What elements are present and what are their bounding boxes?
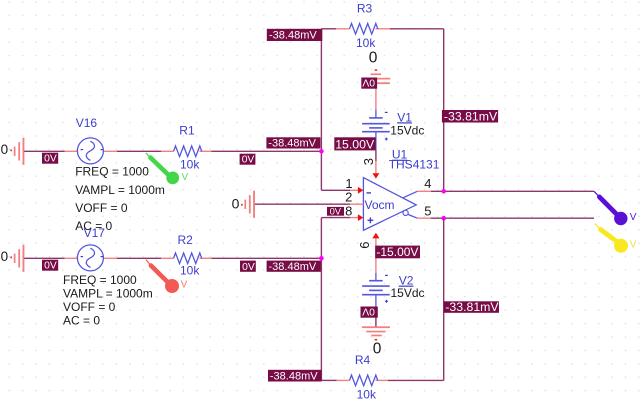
wire V16 to R1 (117, 150, 161, 152)
ground 0 (Vocm net) (232, 191, 255, 218)
svg-text:4: 4 (424, 176, 431, 191)
wire R2 to junction (212, 257, 323, 259)
junction node (R1/feedback) (319, 149, 324, 154)
net label 0V (R1 row) (240, 154, 256, 166)
ground 0 (V16 input net) (1, 138, 25, 165)
pin 8 stub and arrow (350, 214, 363, 221)
net label 0V rotated (above V1) (361, 77, 377, 89)
wire Vocm (ground to pin2) (255, 203, 350, 205)
svg-text:VAMPL = 1000m: VAMPL = 1000m (75, 183, 165, 197)
source V2 15Vdc (362, 273, 424, 307)
wire R4 row left (321, 379, 336, 381)
voltage probe (red) on R2 output (146, 260, 188, 293)
wire R4 to right vertical (388, 379, 444, 381)
svg-text:-38.48mV: -38.48mV (270, 370, 318, 382)
svg-text:V: V (630, 239, 637, 250)
net label 0V (Vocm net) (327, 205, 344, 216)
net label 0V (left V16) (42, 153, 58, 165)
resistor R3 (336, 2, 390, 50)
ground 0 (below V2) (362, 326, 390, 357)
wire pin6 to V2 (375, 238, 377, 272)
svg-text:-15.00V: -15.00V (376, 245, 418, 259)
svg-text:R2: R2 (178, 233, 194, 247)
svg-text:0: 0 (232, 196, 240, 212)
V16 parameter text (75, 165, 165, 234)
bias label -33.81mV (out+) (442, 110, 498, 124)
wire left vertical (pin8 down to R4 row) (320, 218, 322, 381)
bias label 15.00V (334, 137, 375, 151)
svg-text:0: 0 (1, 142, 9, 157)
bias label -38.48mV (R3 row) (267, 29, 323, 42)
wire out- (pin5 to probe) (431, 217, 594, 219)
svg-text:-33.81mV: -33.81mV (444, 110, 498, 124)
svg-text:15.00V: 15.00V (335, 137, 375, 151)
svg-text:10k: 10k (356, 36, 376, 50)
svg-text:R4: R4 (355, 353, 371, 367)
svg-text:Vocm: Vocm (365, 198, 395, 212)
svg-text:FREQ = 1000: FREQ = 1000 (63, 273, 137, 287)
wire ground to V17 (24, 257, 65, 259)
source V1 15Vdc (362, 110, 424, 151)
pin 2 stub (Vocm) (350, 203, 363, 205)
svg-text:FREQ = 1000: FREQ = 1000 (75, 165, 149, 179)
bias label -15.00V (375, 245, 420, 259)
svg-text:8: 8 (345, 204, 352, 219)
svg-text:10k: 10k (357, 388, 377, 402)
source V16 (65, 116, 117, 164)
junction node (out-) (441, 216, 446, 221)
svg-text:0: 0 (369, 49, 378, 66)
svg-text:R3: R3 (357, 2, 373, 16)
wire left vertical (junction to pin1 and up to R3 row) (320, 29, 322, 191)
output pin 5 bubble and tap (403, 210, 431, 218)
net label 0V (left V17) (42, 260, 58, 272)
source V17 (65, 226, 117, 271)
net label 0V (R2 row) (240, 261, 256, 273)
wire R3 row (321, 28, 336, 30)
ground 0 (above V1, flipped) (362, 49, 390, 84)
wire ground to V16 (24, 150, 65, 152)
svg-text:0: 0 (1, 249, 9, 264)
wire pin1 horizontal (321, 189, 350, 191)
svg-text:-33.81mV: -33.81mV (445, 300, 499, 314)
svg-text:VAMPL = 1000m: VAMPL = 1000m (63, 287, 153, 301)
wire V2 to ground (375, 307, 377, 328)
wire pin8 horizontal (321, 217, 350, 219)
svg-text:V1: V1 (397, 110, 412, 124)
bias label -38.48mV (R1 row) (266, 137, 320, 149)
svg-text:0V: 0V (242, 155, 255, 166)
op-amp U1 THS4131 triangle (363, 178, 416, 231)
ground 0 (V17 input net) (1, 245, 25, 272)
pin 3 arrow (372, 173, 379, 178)
voltage probe (green) on R1 output (146, 153, 189, 184)
pin numbers 4 5 (424, 176, 431, 218)
svg-text:V: V (181, 279, 188, 290)
wire V1 to pin3 (375, 150, 377, 174)
svg-text:0V: 0V (44, 261, 57, 272)
pin 1 stub and arrow (350, 187, 363, 194)
svg-text:R1: R1 (179, 124, 195, 138)
svg-text:3: 3 (361, 158, 376, 165)
wire right vertical bottom (out- to R4 row) (443, 218, 445, 380)
svg-text:V: V (182, 172, 189, 183)
op-amp U1 labels (389, 148, 440, 172)
svg-text:0V: 0V (330, 205, 342, 216)
svg-text:-38.48mV: -38.48mV (268, 138, 316, 150)
svg-text:V: V (630, 212, 637, 223)
resistor R4 (337, 353, 389, 402)
bias label -33.81mV (out-) (444, 300, 500, 314)
svg-text:10k: 10k (180, 263, 200, 277)
V17 parameter text (63, 273, 153, 327)
wire right vertical top (R3 row to out+) (443, 29, 445, 192)
output pin 4 tap (403, 191, 431, 198)
svg-text:-38.48mV: -38.48mV (269, 261, 317, 273)
svg-text:V16: V16 (76, 116, 98, 130)
resistor R2 (161, 233, 211, 278)
junction node (R2/feedback) (319, 256, 324, 261)
svg-text:6: 6 (357, 241, 372, 248)
svg-text:0V: 0V (44, 154, 57, 165)
svg-text:V17: V17 (84, 226, 106, 240)
wire R1 to junction (212, 150, 323, 152)
voltage probe (violet) on out+ (594, 191, 637, 225)
svg-text:-38.48mV: -38.48mV (269, 30, 317, 42)
net label 0V rotated (below V2) (361, 306, 378, 318)
wire V17 to R2 (117, 257, 161, 259)
junction node (out+) (441, 189, 446, 194)
bias label -38.48mV (R4 row) (268, 370, 322, 383)
svg-text:15Vdc: 15Vdc (390, 124, 424, 138)
svg-text:5: 5 (424, 203, 431, 218)
svg-text:0V: 0V (362, 77, 375, 88)
resistor R1 (161, 124, 211, 172)
svg-text:VOFF = 0: VOFF = 0 (75, 201, 128, 215)
pin 6 arrow (372, 233, 379, 239)
svg-text:0: 0 (373, 340, 382, 357)
pin numbers 1 2 8 (345, 176, 353, 218)
svg-text:10k: 10k (180, 157, 200, 171)
svg-text:VOFF = 0: VOFF = 0 (63, 300, 116, 314)
svg-text:0V: 0V (242, 262, 255, 273)
wire out+ (pin4 to probe) (431, 190, 594, 192)
bias label -38.48mV (R2 row) (267, 261, 322, 273)
wire R3 to right vertical (390, 28, 444, 30)
wire ground to V1 (375, 84, 377, 109)
svg-text:15Vdc: 15Vdc (391, 286, 425, 300)
svg-text:2: 2 (345, 190, 352, 205)
svg-text:THS4131: THS4131 (389, 158, 440, 172)
svg-text:AC = 0: AC = 0 (63, 313, 100, 327)
voltage probe (yellow) on out- (595, 224, 637, 253)
svg-text:0V: 0V (362, 306, 375, 317)
